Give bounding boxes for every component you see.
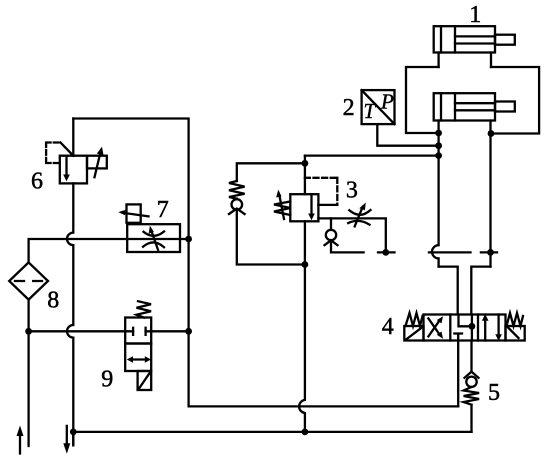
svg-text:3: 3: [346, 178, 358, 204]
svg-text:T: T: [363, 99, 376, 123]
svg-text:6: 6: [31, 169, 43, 195]
svg-text:1: 1: [469, 2, 481, 28]
svg-text:P: P: [380, 90, 394, 114]
svg-text:2: 2: [343, 95, 355, 121]
svg-text:8: 8: [47, 287, 59, 313]
svg-text:9: 9: [101, 366, 113, 392]
svg-text:7: 7: [157, 197, 169, 223]
svg-text:5: 5: [488, 380, 500, 406]
svg-text:4: 4: [382, 314, 394, 340]
